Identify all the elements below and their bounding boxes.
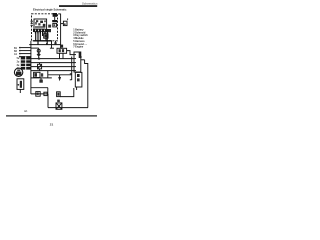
module U1 <box>75 72 82 87</box>
wire bottom bus <box>48 107 88 109</box>
stub mark <box>67 18 68 20</box>
key switch S1 contact chart <box>35 26 45 29</box>
wire drop b <box>55 41 57 45</box>
wire bus top tick <box>58 13 60 15</box>
wire bus row 2 <box>31 58 74 60</box>
switch S2 plunger <box>59 75 61 77</box>
wire J1 pin stub <box>81 59 85 61</box>
wire K3 lead <box>40 78 42 80</box>
wire drop a <box>51 41 53 48</box>
wire J3 lead <box>45 38 47 41</box>
indicator lamp DS1 <box>53 13 57 17</box>
wire battery stub <box>19 89 21 93</box>
wire bus row 5 <box>31 70 74 72</box>
key switch S1 terminal strip <box>33 29 51 32</box>
node bus row junction <box>38 58 40 60</box>
battery BT1 <box>17 79 24 90</box>
wire bottom run <box>31 93 48 95</box>
key switch S1 body <box>34 19 47 29</box>
relay box K2 <box>63 21 67 25</box>
wire drop to engine <box>47 94 49 108</box>
inline connector J3 <box>44 34 48 38</box>
node fuse junction <box>38 58 40 60</box>
header rule bar <box>59 5 97 7</box>
svg-text:Schematics: Schematics <box>82 1 98 5</box>
wire U1 lead <box>76 87 78 90</box>
wire bus row 4 <box>31 66 74 68</box>
wire jog to connector pin 1 <box>67 51 74 55</box>
wire ground riser <box>47 88 49 94</box>
legend list <box>73 28 88 48</box>
fuse F1 <box>37 49 40 52</box>
label E1 tag <box>57 100 60 102</box>
wire bus row 3 <box>31 62 74 64</box>
inline connector J5 <box>44 92 47 95</box>
wire DS1 stem <box>54 17 56 20</box>
svg-text:7 Engine: 7 Engine <box>73 45 84 48</box>
label blob right of switch <box>48 25 51 28</box>
wire long feed <box>29 44 60 46</box>
engine ground E1 <box>56 103 62 109</box>
footer rule <box>6 115 97 116</box>
starter motor M1 <box>14 68 22 76</box>
wires J4 leads <box>59 53 61 58</box>
wire junction riser <box>46 43 48 45</box>
wire mid vertical <box>71 57 73 81</box>
wires from switch terminals <box>36 31 48 44</box>
wire left bus vertical <box>30 41 32 94</box>
diode module D2 <box>39 63 41 65</box>
wires solenoid ladder <box>21 47 32 49</box>
svg-text:Electrical single Schematic: Electrical single Schematic <box>33 8 67 12</box>
enclosure edge pins <box>31 21 33 22</box>
wire lower feed <box>31 77 52 79</box>
wire fuse branch <box>31 47 39 49</box>
wire right bus vertical <box>60 14 62 49</box>
wire mid riser <box>47 71 49 78</box>
wire labels column <box>14 48 20 70</box>
solenoid K1 contact block <box>21 56 31 69</box>
diode D1 <box>37 53 41 57</box>
svg-text:21: 21 <box>50 123 54 127</box>
hour meter box <box>53 23 57 27</box>
dashed console enclosure <box>32 14 58 41</box>
terminal pins row <box>35 32 36 34</box>
wire return loop <box>60 88 74 97</box>
J1 pin ticks <box>74 54 76 56</box>
inline fuse F2 <box>36 92 40 97</box>
interlock contact bar <box>52 20 57 22</box>
capacitor C1 block <box>39 80 42 83</box>
relay module K3 <box>34 72 40 77</box>
connector J4 two-cell <box>57 48 67 53</box>
node bus junction <box>60 45 63 48</box>
wire pto feed <box>48 74 72 76</box>
wire right drop loop <box>85 60 88 108</box>
wire harness line <box>33 40 52 42</box>
inline connector J6 <box>57 92 61 97</box>
harness connector J1 <box>74 52 81 72</box>
wire branch to relay box <box>61 23 64 25</box>
wire ground feed <box>31 87 48 89</box>
ladder pins <box>19 47 21 48</box>
